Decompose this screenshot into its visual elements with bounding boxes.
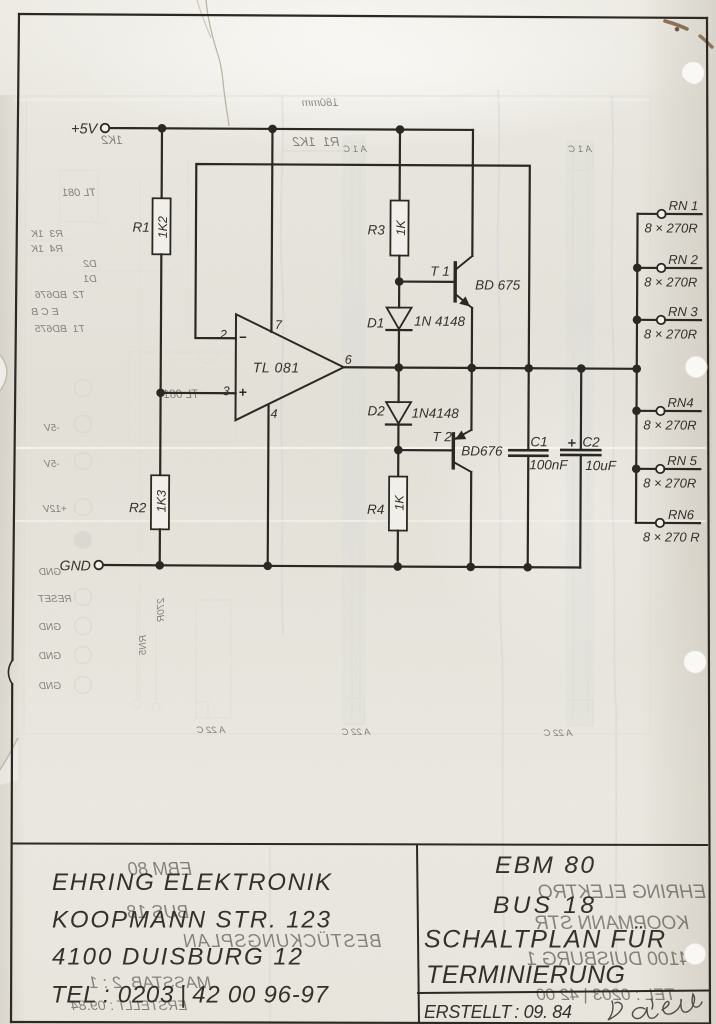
svg-text:C1: C1 (530, 434, 547, 449)
svg-text:4: 4 (270, 407, 277, 421)
svg-text:A 22 C: A 22 C (342, 727, 372, 738)
svg-text:GND: GND (39, 651, 61, 662)
svg-text:4100 DUISBURG 12: 4100 DUISBURG 12 (52, 944, 302, 971)
frame left edge notch arc (8, 660, 12, 684)
svg-text:BD 675: BD 675 (475, 277, 521, 292)
wire T2 emitter to output (470, 368, 473, 430)
title block top line (12, 844, 708, 846)
wire D2 to T2 base node (397, 425, 399, 477)
node junction C1/GND (523, 563, 532, 572)
node junction T1 base (395, 277, 404, 286)
svg-text:R1 1K2: R1 1K2 (292, 134, 340, 149)
svg-text:1K: 1K (393, 495, 407, 511)
svg-text:-5V: -5V (43, 459, 60, 470)
transistor T2 BD676 (432, 429, 503, 472)
resistor R2 (129, 475, 169, 529)
diode D1 1N4148 (367, 307, 466, 331)
svg-text:D1: D1 (367, 315, 384, 330)
svg-text:270R: 270R (156, 597, 167, 622)
svg-text:RN4: RN4 (668, 395, 694, 410)
capacitor C2 10uF polarized (561, 434, 617, 473)
svg-text:RESET: RESET (37, 594, 71, 605)
wire pin4 (267, 405, 270, 566)
svg-text:TL 081: TL 081 (253, 359, 300, 375)
node junction diode column/output (394, 363, 403, 372)
svg-text:1K2: 1K2 (101, 133, 123, 147)
op-amp U1 TL081 (235, 314, 344, 421)
node junction pin4/GND (263, 562, 272, 571)
wire T1 collector to +5V (471, 130, 474, 256)
wire GND rail (103, 565, 580, 567)
wire T2 collector to GND (470, 472, 473, 567)
top centre crease (206, 0, 229, 126)
frame top edge (19, 14, 707, 18)
svg-text:+5V: +5V (71, 121, 99, 137)
svg-text:R3: R3 (367, 222, 385, 237)
svg-text:R3 1K: R3 1K (30, 228, 63, 240)
title block ERSTELLT separator (417, 991, 709, 994)
svg-text:7: 7 (275, 318, 283, 332)
svg-text:T1 BD675: T1 BD675 (35, 323, 85, 335)
wire R1 top (161, 128, 164, 198)
svg-text:1N4148: 1N4148 (411, 406, 459, 421)
svg-text:D1: D1 (83, 273, 96, 285)
wire T2 base (398, 449, 452, 451)
svg-text:RN 1: RN 1 (669, 198, 699, 213)
svg-text:R2: R2 (129, 500, 147, 515)
svg-text:D2: D2 (367, 403, 385, 418)
svg-text:A 1 C: A 1 C (568, 144, 593, 155)
node junction T2 base (394, 446, 403, 455)
svg-text:3: 3 (223, 384, 230, 398)
wire R1 to R2 (160, 254, 161, 475)
svg-text:8 × 270R: 8 × 270R (644, 220, 697, 235)
svg-text:TEL : 0203 | 42 00 96-97: TEL : 0203 | 42 00 96-97 (51, 982, 330, 1009)
node junction R4/GND (393, 562, 402, 571)
left edge tear tab (0, 355, 7, 391)
resistor R1 (132, 198, 170, 254)
svg-text:TL 081: TL 081 (62, 187, 96, 199)
svg-text:KOOPMANN STR. 123: KOOPMANN STR. 123 (52, 907, 331, 934)
wire D1 to output (398, 330, 400, 367)
frame bottom edge (11, 1022, 710, 1024)
wire C1 bottom stem (527, 456, 530, 567)
frame right edge (707, 18, 710, 1023)
svg-text:1K2: 1K2 (156, 216, 170, 238)
wire T1 base (399, 280, 453, 282)
wire RN trunk (636, 214, 638, 523)
svg-text:6: 6 (345, 353, 352, 367)
svg-text:GND: GND (39, 567, 61, 578)
node junction RN5 (632, 464, 641, 473)
svg-text:GND: GND (60, 557, 91, 573)
wire C2 top stem (580, 369, 583, 450)
signature handwritten (608, 994, 702, 1020)
svg-text:10uF: 10uF (585, 458, 617, 473)
resistor network RN1 8x270R (637, 198, 701, 236)
svg-text:-5V: -5V (43, 423, 60, 434)
resistor network RN4 8x270R (636, 395, 700, 433)
node junction emitters/output (467, 364, 476, 373)
svg-text:TL 081: TL 081 (163, 389, 199, 401)
svg-text:1N 4148: 1N 4148 (414, 314, 466, 329)
punch holes (682, 62, 708, 966)
resistor network RN3 8x270R (637, 304, 701, 342)
svg-text:8 × 270R: 8 × 270R (644, 274, 697, 289)
svg-text:A 22 C: A 22 C (197, 725, 227, 736)
bottom-left corner curl (0, 738, 18, 770)
svg-text:1K: 1K (394, 220, 408, 236)
wire R2 bottom (159, 529, 161, 565)
+5V terminal (71, 121, 109, 137)
resistor network RN6 8x270R (636, 507, 700, 545)
node junction C2/output (577, 364, 586, 373)
svg-text:R4 1K: R4 1K (30, 243, 63, 255)
svg-text:+12V: +12V (42, 504, 67, 515)
svg-text:1K3: 1K3 (154, 490, 168, 512)
svg-text:RN 3: RN 3 (668, 304, 698, 319)
wire C2 bottom stem (579, 455, 582, 567)
node junction RN3 (633, 315, 642, 324)
node junction T2 collector/GND (466, 563, 475, 572)
wire C1 top stem (527, 368, 530, 450)
svg-text:ERSTELLT : 09. 84: ERSTELLT : 09. 84 (424, 1002, 572, 1022)
svg-text:T 1: T 1 (430, 264, 450, 279)
resistor network RN5 8x270R (636, 453, 700, 491)
wire output rail (344, 367, 637, 369)
svg-text:SCHALTPLAN FÜR: SCHALTPLAN FÜR (424, 926, 665, 954)
svg-text:2: 2 (219, 328, 227, 342)
svg-text:R1: R1 (132, 220, 149, 235)
node junction R2/GND (155, 561, 164, 570)
wire R3 to D1 (398, 256, 400, 308)
rust stain top right (665, 21, 687, 29)
node junction RN trunk/output (632, 364, 641, 373)
svg-text:C2: C2 (582, 435, 600, 450)
transistor T1 BD675 (430, 256, 521, 308)
wire R3 top (399, 130, 402, 201)
resistor R4 (367, 476, 407, 530)
svg-text:A 1 C: A 1 C (343, 144, 368, 155)
svg-text:8 × 270R: 8 × 270R (643, 417, 696, 432)
svg-text:T2 BD676: T2 BD676 (35, 289, 85, 301)
svg-text:GND: GND (39, 681, 61, 692)
svg-text:RN 5: RN 5 (667, 453, 697, 468)
svg-text:EHRING ELEKTRONIK: EHRING ELEKTRONIK (52, 869, 332, 896)
svg-text:T 2: T 2 (432, 429, 452, 444)
svg-text:100nF: 100nF (529, 457, 568, 472)
node junction pin3 (156, 388, 165, 397)
svg-text:RN5: RN5 (138, 635, 149, 655)
svg-text:E C B: E C B (31, 306, 58, 318)
svg-text:R4: R4 (367, 502, 384, 517)
ground terminal GND (60, 557, 103, 573)
resistor network RN2 8x270R (637, 252, 701, 290)
svg-text:A 22 C: A 22 C (544, 728, 574, 739)
wire R4 bottom (397, 531, 399, 567)
svg-text:8 × 270R: 8 × 270R (643, 475, 696, 490)
resistor R3 (367, 200, 408, 255)
svg-text:BD676: BD676 (461, 443, 503, 458)
svg-text:EBM 80: EBM 80 (495, 852, 594, 879)
svg-text:RN 2: RN 2 (668, 252, 698, 267)
svg-text:GND: GND (39, 622, 61, 633)
diode D2 1N4148 (367, 402, 459, 425)
node junction R3/+5V (396, 125, 405, 134)
svg-text:8 × 270 R: 8 × 270 R (643, 529, 700, 544)
node junction feedback C1/output (524, 364, 533, 373)
wire T1 emitter to output (471, 308, 474, 368)
wire +5V rail (109, 128, 472, 130)
wire pin7 (271, 129, 272, 332)
node junction R1/+5V (158, 124, 167, 133)
capacitor C1 100nF (509, 434, 568, 472)
wire pin3 (161, 392, 236, 395)
node junction pin7/+5V (268, 125, 277, 134)
node junction RN4 (632, 406, 641, 415)
node junction RN2 (633, 263, 642, 272)
svg-text:D2: D2 (83, 258, 97, 270)
svg-text:RN6: RN6 (668, 507, 695, 522)
creases and stains (0, 0, 712, 785)
wire output to D2 (397, 368, 399, 402)
wire feedback loop output to pin2 (195, 164, 530, 368)
frame left edge (11, 14, 19, 1022)
svg-text:180mm: 180mm (302, 97, 339, 109)
svg-text:TERMINIERUNG: TERMINIERUNG (426, 961, 625, 989)
title block (12, 844, 709, 1024)
svg-text:8 × 270R: 8 × 270R (644, 326, 697, 341)
title block divider (417, 845, 419, 1024)
